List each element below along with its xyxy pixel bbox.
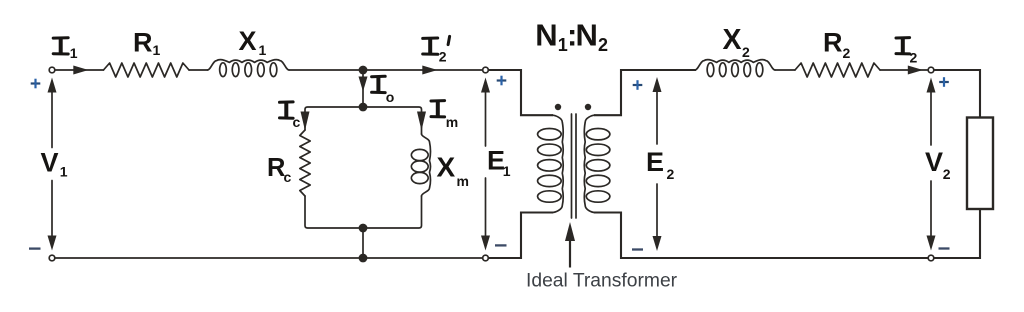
wire Rc to shunt bottom rail <box>305 196 363 228</box>
wire shunt top rail left + Ic drop <box>305 107 363 130</box>
node C junction <box>359 224 368 233</box>
label E2 <box>646 147 675 182</box>
svg-text:N: N <box>535 17 557 52</box>
plus V1 <box>31 79 41 89</box>
minus E1 <box>495 244 507 246</box>
wire shunt top rail right + Im drop <box>363 107 422 134</box>
plus V2 <box>939 77 949 87</box>
node D junction on bottom wire <box>359 254 368 263</box>
resistor R2 <box>795 63 880 77</box>
transformer primary winding <box>538 115 564 212</box>
svg-text:2: 2 <box>598 35 608 55</box>
inductor X1 <box>208 60 290 77</box>
wire secondary bottom step <box>595 213 931 259</box>
label R1 <box>133 27 161 58</box>
label N1:N2 <box>535 17 608 55</box>
svg-text:N: N <box>576 17 598 52</box>
resistor Rc <box>300 130 310 196</box>
ideal transformer pointer arrow <box>565 222 575 268</box>
label I1 <box>53 38 78 62</box>
wire Xm to shunt bottom rail <box>363 196 422 228</box>
wire primary top step <box>489 70 552 115</box>
label X2 <box>723 24 751 60</box>
current arrow I2' <box>422 66 437 75</box>
polarity dot primary <box>555 104 561 110</box>
minus V1 <box>29 247 41 249</box>
label R2 <box>823 28 851 62</box>
plus E2 <box>633 80 643 90</box>
inductor Xm <box>411 134 430 196</box>
svg-text:c: c <box>293 114 301 130</box>
resistor R1 <box>104 63 190 77</box>
voltage arrow E2 <box>653 77 662 251</box>
svg-text:2: 2 <box>742 44 750 60</box>
wire V2 top to load <box>935 70 981 118</box>
svg-text:V: V <box>41 148 59 178</box>
svg-text:X: X <box>437 152 456 183</box>
label X1 <box>239 26 267 58</box>
inductor X2 <box>695 60 775 77</box>
svg-text:1: 1 <box>503 163 511 179</box>
current arrow Im <box>417 112 426 131</box>
node B junction <box>359 103 368 112</box>
label V1 <box>41 148 68 180</box>
svg-text:o: o <box>386 89 395 105</box>
svg-text:1: 1 <box>70 45 78 61</box>
polarity dot secondary <box>585 104 591 110</box>
wire node A to E1 terminal, with I2' <box>363 69 482 71</box>
wire X1 to node A <box>289 69 363 71</box>
svg-text:E: E <box>646 147 664 177</box>
svg-text:1: 1 <box>153 42 161 58</box>
svg-text:X: X <box>723 24 742 56</box>
wire bottom-left <box>56 257 483 259</box>
minus V2 <box>939 247 950 249</box>
node A junction <box>359 66 368 75</box>
transformer core <box>572 114 577 218</box>
svg-text:R: R <box>133 27 153 57</box>
label I2 <box>896 38 918 66</box>
label V2 <box>925 147 951 182</box>
svg-text:c: c <box>284 169 292 185</box>
svg-text:1: 1 <box>259 42 267 58</box>
svg-text:m: m <box>457 173 469 189</box>
current arrow Ic <box>301 112 310 131</box>
wire X2 to R2 <box>775 69 795 71</box>
label Xm <box>437 152 469 190</box>
svg-text:V: V <box>925 147 943 177</box>
svg-text:1: 1 <box>60 164 68 180</box>
wire R1 to X1 <box>189 69 208 71</box>
wire R2 to V2 terminal <box>880 69 928 71</box>
label Im <box>431 101 458 130</box>
svg-text:X: X <box>239 26 257 56</box>
wire node A down to node B (Io branch) <box>362 70 364 107</box>
svg-text:R: R <box>823 28 843 58</box>
svg-text:2: 2 <box>910 49 918 65</box>
current arrow I1 <box>73 66 88 75</box>
current arrow Io <box>359 77 368 92</box>
label I2' <box>423 36 450 64</box>
terminal E1 top <box>483 67 489 73</box>
svg-text:2: 2 <box>439 49 447 65</box>
terminal top-left <box>49 67 55 73</box>
transformer secondary winding <box>584 115 610 212</box>
label E1 <box>487 145 511 179</box>
minus E2 <box>632 248 643 250</box>
wire load bottom <box>935 209 981 258</box>
terminal V2 bottom <box>928 255 934 261</box>
voltage arrow E1 <box>481 78 490 251</box>
svg-text:2: 2 <box>843 45 851 61</box>
svg-text:m: m <box>446 114 458 130</box>
svg-text:2: 2 <box>943 166 951 182</box>
voltage arrow V2 <box>927 78 936 251</box>
svg-text:2: 2 <box>667 166 675 182</box>
wire secondary top step <box>595 70 695 115</box>
label Ideal Transformer <box>526 271 678 292</box>
label Rc <box>267 154 292 185</box>
label Ic <box>280 102 301 130</box>
terminal bottom-left <box>49 255 55 261</box>
voltage arrow V1 <box>48 78 57 251</box>
wire node C to bottom wire <box>362 228 364 258</box>
load resistor <box>967 118 993 210</box>
svg-text:Ideal Transformer: Ideal Transformer <box>526 271 678 292</box>
label Io <box>372 76 395 105</box>
terminal E1 bottom <box>483 255 489 261</box>
wire primary bottom step <box>489 213 552 259</box>
terminal V2 top <box>928 67 934 73</box>
wire top-left: terminal to R1 <box>56 69 104 71</box>
plus E1 <box>497 76 507 86</box>
current arrow I2 <box>908 66 923 75</box>
